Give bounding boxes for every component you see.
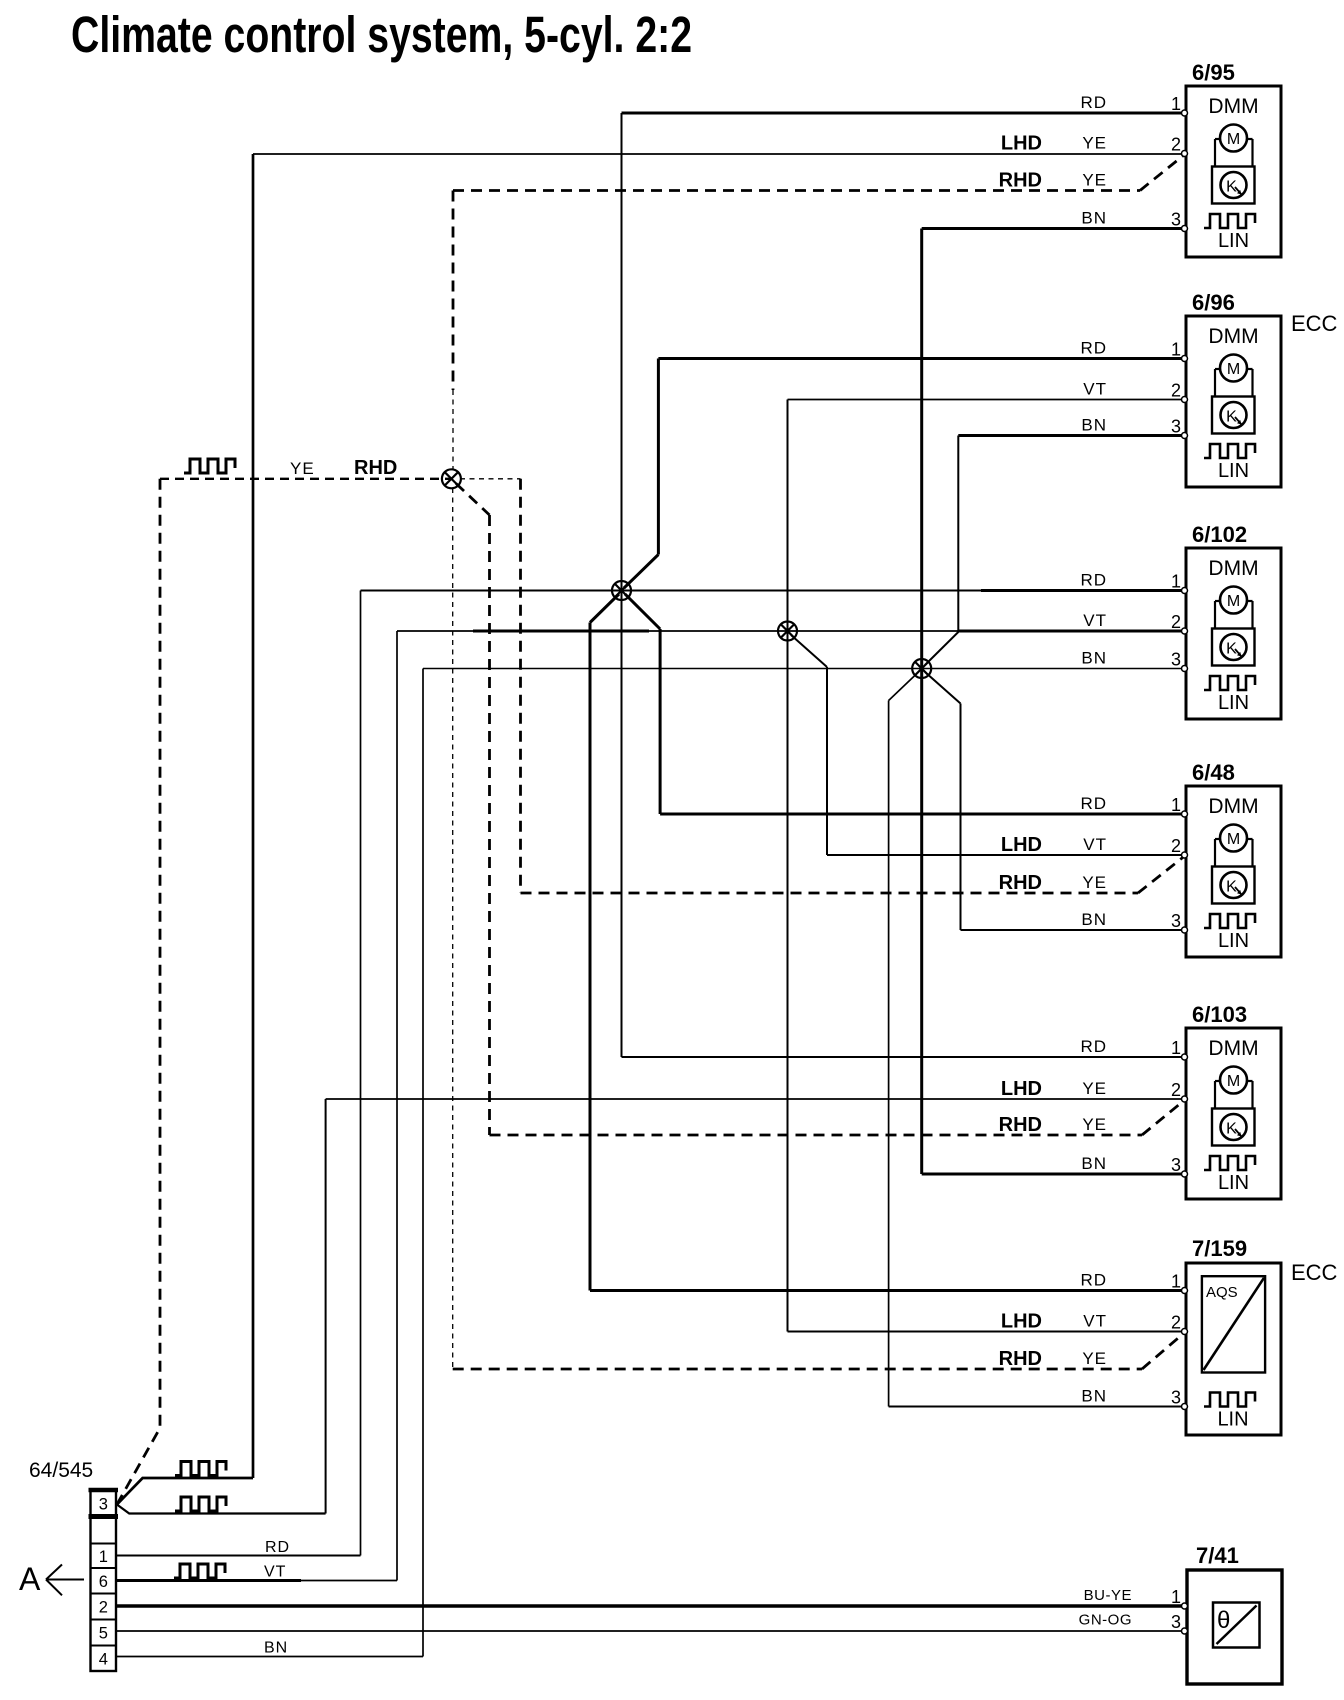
svg-text:64/545: 64/545 xyxy=(29,1459,93,1482)
svg-text:7/159: 7/159 xyxy=(1192,1236,1247,1261)
svg-text:RD: RD xyxy=(1080,339,1107,358)
svg-text:3: 3 xyxy=(1171,911,1181,931)
svg-text:6/103: 6/103 xyxy=(1192,1002,1247,1027)
svg-text:6/95: 6/95 xyxy=(1192,60,1235,85)
svg-text:4: 4 xyxy=(99,1650,108,1668)
svg-text:VT: VT xyxy=(264,1564,286,1581)
svg-text:1: 1 xyxy=(1171,572,1181,592)
svg-text:VT: VT xyxy=(1083,611,1107,630)
svg-text:YE: YE xyxy=(1082,134,1107,153)
svg-text:BN: BN xyxy=(1081,1154,1107,1173)
svg-text:YE: YE xyxy=(290,459,315,478)
svg-text:3: 3 xyxy=(1171,1155,1181,1175)
svg-text:ECC: ECC xyxy=(1291,1260,1338,1285)
svg-text:BN: BN xyxy=(1081,209,1107,228)
svg-text:RHD: RHD xyxy=(999,1348,1042,1370)
svg-text:LHD: LHD xyxy=(1001,834,1042,856)
svg-text:2: 2 xyxy=(99,1599,108,1617)
svg-text:1: 1 xyxy=(1171,340,1181,360)
svg-text:BU-YE: BU-YE xyxy=(1084,1587,1132,1604)
svg-text:RD: RD xyxy=(1080,93,1107,112)
svg-text:1: 1 xyxy=(1171,1587,1181,1607)
svg-text:RHD: RHD xyxy=(999,170,1042,192)
svg-text:1: 1 xyxy=(1171,1272,1181,1292)
svg-text:3: 3 xyxy=(99,1495,108,1513)
svg-text:Climate control system, 5-cyl.: Climate control system, 5-cyl. 2:2 xyxy=(71,6,692,63)
svg-text:2: 2 xyxy=(1171,836,1181,856)
svg-text:VT: VT xyxy=(1083,1312,1107,1331)
svg-text:LHD: LHD xyxy=(1001,133,1042,155)
svg-text:3: 3 xyxy=(1171,1388,1181,1408)
svg-text:ECC: ECC xyxy=(1291,311,1338,336)
svg-text:A: A xyxy=(19,1561,41,1597)
svg-text:GN-OG: GN-OG xyxy=(1079,1612,1132,1629)
svg-text:2: 2 xyxy=(1171,381,1181,401)
svg-text:RD: RD xyxy=(265,1539,290,1556)
svg-text:3: 3 xyxy=(1171,1612,1181,1632)
svg-text:BN: BN xyxy=(1081,910,1107,929)
svg-text:7/41: 7/41 xyxy=(1196,1543,1239,1568)
svg-text:LHD: LHD xyxy=(1001,1311,1042,1333)
svg-text:BN: BN xyxy=(1081,416,1107,435)
svg-text:6/48: 6/48 xyxy=(1192,760,1235,785)
svg-text:RD: RD xyxy=(1080,1271,1107,1290)
svg-text:YE: YE xyxy=(1082,1349,1107,1368)
svg-text:YE: YE xyxy=(1082,1115,1107,1134)
svg-text:YE: YE xyxy=(1082,171,1107,190)
svg-text:5: 5 xyxy=(99,1625,108,1643)
svg-text:2: 2 xyxy=(1171,135,1181,155)
svg-text:2: 2 xyxy=(1171,1080,1181,1100)
svg-text:6/102: 6/102 xyxy=(1192,522,1247,547)
svg-text:BN: BN xyxy=(264,1640,288,1657)
svg-text:3: 3 xyxy=(1171,650,1181,670)
svg-text:6/96: 6/96 xyxy=(1192,290,1235,315)
svg-text:1: 1 xyxy=(99,1548,108,1566)
svg-text:RD: RD xyxy=(1080,571,1107,590)
svg-text:θ: θ xyxy=(1217,1607,1230,1634)
svg-text:1: 1 xyxy=(1171,94,1181,114)
svg-text:LIN: LIN xyxy=(1217,1409,1248,1431)
svg-text:AQS: AQS xyxy=(1206,1284,1238,1301)
svg-text:2: 2 xyxy=(1171,612,1181,632)
svg-text:2: 2 xyxy=(1171,1313,1181,1333)
svg-text:6: 6 xyxy=(99,1573,108,1591)
svg-text:RHD: RHD xyxy=(354,457,397,479)
svg-text:3: 3 xyxy=(1171,417,1181,437)
svg-text:VT: VT xyxy=(1083,380,1107,399)
svg-text:3: 3 xyxy=(1171,210,1181,230)
svg-text:RD: RD xyxy=(1080,794,1107,813)
svg-text:RD: RD xyxy=(1080,1037,1107,1056)
svg-text:RHD: RHD xyxy=(999,872,1042,894)
svg-text:RHD: RHD xyxy=(999,1114,1042,1136)
svg-text:1: 1 xyxy=(1171,1038,1181,1058)
svg-text:YE: YE xyxy=(1082,1079,1107,1098)
svg-text:VT: VT xyxy=(1083,835,1107,854)
svg-text:LHD: LHD xyxy=(1001,1078,1042,1100)
svg-text:YE: YE xyxy=(1082,873,1107,892)
svg-text:BN: BN xyxy=(1081,1387,1107,1406)
svg-text:BN: BN xyxy=(1081,649,1107,668)
svg-text:1: 1 xyxy=(1171,795,1181,815)
